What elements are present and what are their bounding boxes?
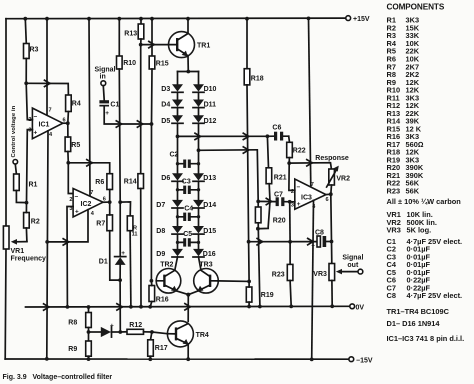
svg-text:R8: R8 bbox=[68, 319, 77, 326]
diode D14 bbox=[193, 200, 216, 209]
hop chevron A over right column bbox=[195, 133, 200, 139]
wire ladder top bar bbox=[178, 71, 199, 73]
resistor R11 bbox=[127, 216, 137, 238]
wire R6 to output node bbox=[109, 190, 111, 203]
svg-text:+: + bbox=[105, 110, 109, 117]
wire TR3 base to R18 column bbox=[218, 280, 249, 283]
capacitor C4 bbox=[178, 205, 199, 221]
potentiometer VR1 bbox=[3, 226, 46, 262]
wire R19 to 0V bbox=[248, 302, 250, 306]
svg-text:D3: D3 bbox=[161, 86, 170, 93]
svg-text:R17: R17 bbox=[155, 345, 168, 352]
wire VR1 to -15V rail corner bbox=[4, 249, 7, 359]
wire IC3 pin4 down to -15V bbox=[312, 200, 314, 359]
wire rail to IC2 pin7 bbox=[89, 19, 90, 196]
svg-text:R22: R22 bbox=[293, 148, 306, 155]
terminal signal out bbox=[342, 255, 363, 274]
capacitor C6 bbox=[267, 125, 288, 141]
diode D13 bbox=[193, 173, 216, 182]
node C2 left bbox=[176, 162, 179, 165]
svg-text:R20: R20 bbox=[273, 217, 286, 224]
svg-text:C3: C3 bbox=[182, 179, 191, 186]
diode D4 bbox=[161, 100, 183, 109]
svg-text:C2: C2 bbox=[170, 151, 179, 158]
wire VR2 to IC3 output node bbox=[330, 185, 333, 194]
hop chevron 0V rail over TR4 collector wire bbox=[185, 304, 190, 310]
resistor R12 bbox=[120, 322, 143, 334]
svg-text:out: out bbox=[347, 262, 359, 269]
wire R4 to IC1 output node bbox=[67, 112, 70, 124]
node -15V R9 bbox=[87, 357, 91, 361]
svg-text:+: + bbox=[121, 250, 125, 257]
node IC1 output bbox=[66, 121, 70, 125]
node C4 left bbox=[176, 215, 179, 218]
node R1/R2/pin3 bbox=[25, 201, 29, 205]
svg-text:D15: D15 bbox=[203, 228, 216, 235]
wire R13 node down to R14 bbox=[140, 45, 142, 174]
node C5 left bbox=[176, 241, 179, 244]
op-amp IC3 bbox=[295, 179, 326, 209]
terminal +15V bbox=[346, 16, 370, 24]
svg-text:R18: R18 bbox=[251, 76, 264, 83]
node B/C7/R20 bbox=[256, 200, 260, 204]
svg-text:IC1: IC1 bbox=[39, 122, 50, 129]
wire R20 to 0V bbox=[258, 223, 260, 307]
svg-text:R14: R14 bbox=[124, 178, 137, 185]
wire R16 to 0V bbox=[150, 302, 152, 307]
resistor R9 bbox=[68, 341, 91, 356]
wire R8 to D2 node bbox=[88, 328, 90, 342]
svg-text:R9: R9 bbox=[68, 346, 77, 353]
svg-text:4: 4 bbox=[49, 132, 53, 138]
node -15V TR4 emitter bbox=[186, 357, 190, 361]
node C8/output vertical bbox=[330, 240, 334, 244]
svg-text:+15V: +15V bbox=[353, 16, 370, 23]
node dot rail IC2 pin7 bbox=[87, 17, 91, 21]
resistor R19 bbox=[246, 287, 273, 302]
svg-text:+: + bbox=[311, 243, 315, 250]
svg-text:VR1: VR1 bbox=[11, 248, 25, 255]
wire IC1 apex to output node bbox=[63, 122, 68, 124]
svg-text:VR2: VR2 bbox=[336, 175, 350, 182]
node -15V R17 bbox=[148, 357, 152, 361]
node C2 right bbox=[197, 162, 200, 165]
node 0V IC2 pin3 bbox=[66, 305, 70, 309]
hop chevron C7 line over R21 wire bbox=[266, 198, 271, 204]
node 0V R16 bbox=[148, 305, 152, 309]
hop chevron pin4 branch over pin3 wire bbox=[63, 239, 68, 245]
wire R7 down and right to D1 column bbox=[110, 231, 120, 280]
diode D12 bbox=[193, 115, 217, 125]
wire TR1 emitter to ladder top bbox=[187, 56, 189, 72]
wire left edge from +15V to VR1 bbox=[5, 19, 7, 226]
wire pin3 drop to output coupling line bbox=[289, 202, 291, 242]
wire node B1 down to IC2 pin2 bbox=[68, 163, 73, 194]
node 0V R11 bbox=[129, 305, 133, 309]
resistor R14 bbox=[124, 174, 144, 189]
hop chevron base line over R15 wire bbox=[149, 41, 154, 47]
node R5/R6/IC2 pin2 bbox=[66, 161, 70, 165]
svg-text:6: 6 bbox=[326, 197, 329, 203]
diode D3 bbox=[161, 84, 183, 93]
svg-text:R4: R4 bbox=[72, 101, 81, 108]
wire TR2 emitter to junction bbox=[177, 291, 188, 295]
wire rail to IC3 pin7 bbox=[309, 18, 311, 187]
wire IC1 pin3 stub and vertical down bbox=[27, 130, 33, 203]
node C7/IC3 pin3 drop bbox=[288, 200, 292, 204]
svg-text:R15: R15 bbox=[156, 61, 169, 68]
node -15V IC1 pin4 bbox=[45, 357, 49, 361]
wire branch to R11 bbox=[120, 202, 130, 216]
svg-text:D1: D1 bbox=[99, 259, 108, 266]
node dot rail R15 bbox=[150, 17, 154, 21]
svg-text:D6: D6 bbox=[161, 175, 170, 182]
wire R22 to response node bbox=[288, 158, 290, 164]
svg-text:R: R bbox=[133, 225, 137, 231]
svg-text:IC1–IC3 741 8 pin d.i.l.: IC1–IC3 741 8 pin d.i.l. bbox=[387, 334, 465, 343]
svg-text:C8: C8 bbox=[315, 229, 324, 236]
capacitor C2 bbox=[170, 151, 199, 168]
wire TR1 base line bbox=[141, 44, 169, 46]
node C3 right bbox=[197, 188, 200, 191]
node D1/R7 branch bbox=[118, 278, 122, 282]
wire IC1 pin4 down to -15V bbox=[47, 131, 48, 359]
svg-text:D12: D12 bbox=[204, 118, 217, 125]
wire R12 to R17/TR4 node bbox=[144, 331, 152, 333]
node C5 right bbox=[197, 241, 200, 244]
node dot rail TR1 collector bbox=[186, 17, 190, 21]
transistor TR3 bbox=[194, 261, 219, 293]
wiper arrow VR3 to signal out bbox=[336, 269, 358, 275]
wire R23 from coupling line bbox=[289, 242, 291, 265]
wire IC3 apex to output node bbox=[326, 193, 331, 195]
svg-text:D5: D5 bbox=[161, 118, 170, 125]
hop chevron coupling line over IC3 pin4 wire bbox=[308, 238, 313, 244]
svg-text:0V: 0V bbox=[356, 305, 365, 312]
svg-text:−: − bbox=[297, 184, 301, 191]
resistor R20 bbox=[255, 207, 285, 224]
resistor R18 bbox=[244, 69, 264, 85]
svg-text:R19: R19 bbox=[261, 292, 274, 299]
hop chevron at IC1 pin7 wire bbox=[45, 80, 50, 86]
wire IC1 out to R5 bbox=[67, 123, 69, 137]
svg-text:3: 3 bbox=[291, 203, 294, 209]
svg-text:7: 7 bbox=[49, 107, 52, 113]
wire rail to R15 bbox=[151, 19, 153, 56]
wire node B1 to R6 top bbox=[68, 163, 109, 174]
node dot rail R13 bbox=[139, 17, 143, 21]
wire D1 down through 0V to D2 node bbox=[119, 265, 121, 332]
svg-text:R6: R6 bbox=[95, 179, 104, 186]
node dot rail IC1 pin7 bbox=[45, 17, 49, 21]
svg-text:D10: D10 bbox=[204, 86, 217, 93]
svg-text:4: 4 bbox=[91, 211, 95, 217]
wire R11 to 0V bbox=[129, 231, 132, 307]
svg-text:C8: C8 bbox=[387, 291, 396, 300]
terminal -15V bbox=[349, 357, 373, 365]
wire C1 down and right to R15 column bbox=[104, 107, 151, 124]
hop chevron C1 wire over R10 column bbox=[116, 121, 121, 127]
node C4 right bbox=[197, 215, 200, 218]
wire response line to VR2 bbox=[289, 163, 331, 169]
diode D8 bbox=[156, 226, 183, 235]
wire feedback horizontal to R4 bbox=[26, 83, 68, 95]
wire output coupling line to C8 bbox=[249, 241, 317, 243]
potentiometer VR2 bbox=[329, 169, 350, 185]
svg-text:7: 7 bbox=[311, 182, 314, 188]
capacitor C8 bbox=[311, 229, 326, 249]
wire rail to TR1 collector bbox=[187, 19, 189, 34]
hop chevron C1 wire over R13-R14 column bbox=[137, 121, 142, 127]
hop chevron coupling line over R20 column bbox=[257, 239, 262, 245]
svg-text:−: − bbox=[34, 114, 38, 121]
wire IC2 pin4 branch to IC1 pin4 line bbox=[47, 210, 88, 242]
wire 0V rail bbox=[26, 305, 350, 308]
svg-text:IC2: IC2 bbox=[81, 201, 92, 208]
node -15V IC3 pin4 bbox=[310, 358, 314, 362]
wire rail to IC1 pin 7 bbox=[46, 19, 48, 116]
svg-text:+: + bbox=[110, 322, 114, 329]
wire IC3 pin2 from response node bbox=[289, 163, 295, 190]
node R20/R21 join bbox=[256, 227, 260, 231]
svg-text:R7: R7 bbox=[96, 221, 105, 228]
hop chevron 0V rail over IC1 pin4 wire bbox=[44, 304, 49, 310]
svg-text:TR1: TR1 bbox=[197, 43, 210, 50]
svg-text:Signal: Signal bbox=[95, 67, 116, 74]
wire R21 down across C7 line to R20 column bbox=[258, 184, 270, 229]
node R8/R9/D2 bbox=[87, 330, 91, 334]
diode D5 bbox=[161, 115, 183, 125]
wire D2 cathode to node bbox=[112, 331, 121, 333]
wire -15V rail bbox=[5, 358, 349, 360]
wire tap B to R20 node bbox=[199, 150, 259, 202]
resistor R22 bbox=[287, 142, 306, 157]
svg-text:C6: C6 bbox=[272, 125, 281, 132]
svg-text:R2: R2 bbox=[31, 219, 40, 226]
hop chevron at IC2 pin7 wire bbox=[87, 160, 92, 166]
svg-text:R21: R21 bbox=[274, 174, 287, 181]
wire tap A to C6 node bbox=[178, 135, 268, 137]
svg-text:D8: D8 bbox=[156, 228, 165, 235]
svg-text:D9: D9 bbox=[156, 251, 165, 258]
wire R1 jog to node bbox=[16, 191, 26, 203]
svg-text:TR3: TR3 bbox=[199, 261, 212, 268]
svg-text:D1– D16 1N914: D1– D16 1N914 bbox=[387, 319, 441, 328]
node C6/R21 on line A bbox=[266, 134, 270, 138]
wire node to R17 bbox=[151, 332, 152, 340]
resistor R13 bbox=[124, 24, 144, 39]
wire TR2 base node to R16 bbox=[150, 281, 152, 286]
wire R23 to 0V bbox=[290, 281, 291, 307]
svg-text:in: in bbox=[100, 74, 106, 81]
terminal control voltage in bbox=[11, 105, 18, 164]
svg-text:TR1–TR4 BC109C: TR1–TR4 BC109C bbox=[387, 307, 450, 316]
svg-text:D7: D7 bbox=[156, 202, 165, 209]
wire R18 down to TR3 base node bbox=[247, 85, 249, 282]
svg-text:Control voltage in: Control voltage in bbox=[11, 105, 17, 157]
transistor TR2 bbox=[156, 261, 181, 293]
node IC2 output bbox=[108, 200, 112, 204]
svg-text:R5: R5 bbox=[71, 142, 80, 149]
wire signal in to C1 bbox=[102, 86, 105, 100]
svg-text:D16: D16 bbox=[203, 251, 216, 258]
transistor TR1 bbox=[169, 32, 211, 58]
hop chevron response over IC3 pin7 wire bbox=[307, 160, 312, 166]
wire C6 to R22 bbox=[288, 136, 291, 142]
svg-text:D4: D4 bbox=[161, 102, 170, 109]
svg-text:4·7µF 25V elect.: 4·7µF 25V elect. bbox=[407, 291, 463, 300]
wire output node to R7 bbox=[109, 202, 111, 215]
wire R14 to 0V bbox=[140, 189, 142, 307]
node R22/response/IC3 pin2 bbox=[287, 161, 291, 165]
node IC3 output / VR2 bbox=[329, 192, 333, 196]
wire R10 node down to D1 bbox=[119, 202, 121, 256]
node dot rail R10 bbox=[117, 17, 121, 21]
node C1/R15 bbox=[150, 122, 154, 126]
wire R13 to base node bbox=[140, 39, 142, 45]
svg-text:TR2: TR2 bbox=[160, 261, 173, 268]
wire C8 to output vertical bbox=[326, 241, 331, 243]
diode D9 bbox=[156, 249, 183, 258]
diode D10 bbox=[193, 84, 217, 93]
node dot rail R3 bbox=[23, 17, 27, 21]
node R18 column coupling line bbox=[247, 240, 251, 244]
terminal 0V bbox=[350, 304, 365, 312]
wire 0V to R8 bbox=[88, 307, 90, 313]
svg-text:56K: 56K bbox=[406, 186, 420, 195]
svg-text:R23: R23 bbox=[272, 271, 285, 278]
wiper arrow VR2 bbox=[327, 166, 339, 187]
node tap A on left column bbox=[176, 135, 180, 139]
node R23 on coupling line bbox=[288, 240, 292, 244]
diode D6 bbox=[161, 173, 183, 182]
capacitor C1 bbox=[99, 100, 119, 117]
resistor R8 bbox=[68, 313, 91, 328]
wire R20 from node down bbox=[257, 201, 259, 207]
resistor R3 bbox=[24, 44, 39, 59]
svg-text:+: + bbox=[34, 130, 38, 137]
svg-text:7: 7 bbox=[90, 190, 93, 196]
node TR2 base / R15 / R16 bbox=[150, 279, 154, 283]
wire rail to R3 bbox=[25, 19, 26, 44]
wire rail to R13 bbox=[140, 19, 142, 24]
svg-text:Signal: Signal bbox=[342, 255, 363, 262]
diode D15 bbox=[193, 226, 216, 235]
op-amp IC1 bbox=[32, 108, 62, 139]
wire left diode column segments bbox=[175, 72, 178, 270]
wire rail to R18 bbox=[246, 19, 248, 69]
node R12/R17/TR4 base bbox=[150, 330, 154, 334]
wire +15V top rail bbox=[6, 17, 346, 20]
transistor TR4 bbox=[167, 321, 209, 347]
node R13/R14/TR1 base bbox=[139, 43, 143, 47]
svg-text:−: − bbox=[75, 194, 79, 201]
diode D7 bbox=[156, 200, 183, 209]
wire R3 to node bbox=[25, 59, 27, 84]
svg-text:5K log.: 5K log. bbox=[407, 226, 432, 235]
hop chevron 0V rail over D1 column bbox=[117, 304, 122, 310]
diode D1 bbox=[99, 250, 126, 265]
svg-text:−15V: −15V bbox=[356, 357, 373, 364]
diode D16 bbox=[193, 249, 216, 258]
svg-text:+: + bbox=[297, 201, 301, 208]
wire rail to R10 bbox=[118, 19, 120, 56]
diode D11 bbox=[193, 100, 216, 109]
node 0V VR3 bbox=[330, 304, 334, 308]
svg-text:C4: C4 bbox=[184, 205, 193, 212]
node 0V R14 bbox=[139, 305, 143, 309]
node tap B on right column bbox=[197, 148, 201, 152]
node 0V R19 bbox=[247, 305, 251, 309]
svg-text:R13: R13 bbox=[124, 31, 137, 38]
resistor R10 bbox=[117, 56, 137, 69]
wire node to R2 bbox=[25, 203, 27, 213]
svg-text:Response: Response bbox=[315, 155, 349, 162]
svg-text:All ± 10% ¼W carbon: All ± 10% ¼W carbon bbox=[387, 197, 462, 206]
resistor R2 bbox=[24, 213, 40, 229]
svg-text:R1: R1 bbox=[29, 182, 38, 189]
op-amp IC2 bbox=[73, 189, 103, 218]
svg-text:C7: C7 bbox=[274, 191, 283, 198]
node ladder top bbox=[186, 70, 190, 74]
svg-text:R3: R3 bbox=[30, 47, 39, 54]
wire R5 to node B1 bbox=[67, 152, 69, 163]
node emitter junction TR2 TR3 TR4 bbox=[186, 293, 190, 297]
node dot rail R18 bbox=[245, 17, 249, 21]
svg-text:VR3: VR3 bbox=[387, 226, 401, 235]
diode D2 bbox=[101, 322, 114, 337]
svg-text:Fig. 3.9 Voltage–controlled: Fig. 3.9 Voltage–controlled filter bbox=[3, 374, 113, 381]
capacitor C5 bbox=[178, 231, 199, 247]
node D2/R12/D1 column bbox=[118, 330, 122, 334]
svg-text:IC3: IC3 bbox=[301, 194, 312, 201]
wire IC1 pin2 stub and vertical to node A1 bbox=[26, 83, 32, 119]
svg-text:C5: C5 bbox=[183, 231, 192, 238]
wire R17 to -15V bbox=[149, 356, 151, 359]
wire IC2 apex to output node bbox=[103, 201, 110, 203]
wire R21 from node A to body bbox=[267, 136, 268, 168]
resistor R4 bbox=[66, 95, 81, 112]
svg-text:R12: R12 bbox=[129, 322, 142, 329]
wire terminal to R1 bbox=[15, 164, 16, 174]
resistor R6 bbox=[95, 174, 112, 190]
wire IC2 pin3 stub down to 0V bbox=[67, 207, 73, 308]
svg-text:COMPONENTS: COMPONENTS bbox=[387, 2, 445, 11]
wire D2 anode lead bbox=[89, 331, 101, 333]
node R10/R11 branch bbox=[118, 200, 122, 204]
resistor R16 bbox=[149, 286, 169, 304]
resistor R5 bbox=[65, 137, 80, 152]
potentiometer VR3 bbox=[313, 264, 334, 281]
terminal signal in bbox=[95, 67, 116, 86]
svg-text:11: 11 bbox=[132, 232, 138, 238]
wire emitter junction to TR4 collector bbox=[187, 295, 189, 322]
resistor R7 bbox=[96, 215, 112, 231]
wire R9 to -15V bbox=[88, 356, 90, 359]
resistor R21 bbox=[266, 168, 287, 184]
svg-text:D14: D14 bbox=[203, 202, 216, 209]
resistor R15 bbox=[149, 56, 169, 69]
svg-text:C1: C1 bbox=[110, 102, 119, 109]
svg-text:D13: D13 bbox=[203, 175, 216, 182]
resistor R23 bbox=[272, 264, 293, 280]
capacitor C7 bbox=[258, 191, 295, 206]
svg-text:D11: D11 bbox=[204, 102, 217, 109]
wire node to TR4 base bbox=[152, 332, 168, 334]
svg-text:TR4: TR4 bbox=[196, 332, 209, 339]
node 0V R8 bbox=[87, 305, 91, 309]
wiper arrow VR1 bbox=[11, 239, 27, 245]
